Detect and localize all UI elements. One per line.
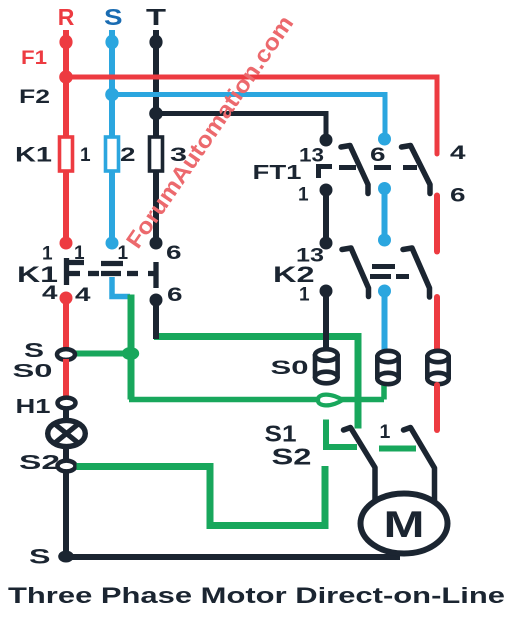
fuse 3 (T phase) <box>150 137 163 171</box>
wire phase R vertical top <box>63 30 69 137</box>
wire bottom return to motor <box>66 554 400 560</box>
wire H1 to lamp <box>63 407 69 421</box>
svg-text:1: 1 <box>299 285 310 306</box>
wire F1 red rail <box>66 77 437 154</box>
node K2 pole2 bottom <box>378 285 391 298</box>
wire black K2 to coil <box>323 291 329 352</box>
FT1 blade pole1 <box>341 146 368 194</box>
svg-text:S2: S2 <box>272 444 312 470</box>
node K2 pole1 bottom <box>320 285 333 298</box>
svg-text:S2: S2 <box>19 452 60 474</box>
svg-text:4: 4 <box>75 285 91 306</box>
wire green vertical from blue corner through S junction <box>128 295 135 400</box>
svg-text:2: 2 <box>120 145 136 166</box>
svg-text:6: 6 <box>450 186 466 207</box>
linkage dash K1 a <box>88 271 99 276</box>
svg-text:H1: H1 <box>16 396 51 418</box>
node R terminal dot <box>59 35 72 49</box>
coil cylinder 3 <box>427 351 448 384</box>
K2 linkage equals <box>370 267 395 277</box>
svg-text:6: 6 <box>166 243 182 264</box>
node FT1 pole2 bottom <box>378 182 391 195</box>
svg-text:M: M <box>384 504 425 545</box>
svg-text:6: 6 <box>167 285 183 306</box>
svg-text:S: S <box>29 546 51 569</box>
fuse 1 (R phase) <box>60 137 73 171</box>
node S above K1 <box>106 237 119 250</box>
svg-text:1: 1 <box>298 185 309 206</box>
wire green S terminal to junction <box>72 351 128 357</box>
wire green S1 top stub <box>326 420 357 448</box>
FT1 blade pole2 <box>402 146 431 194</box>
node junction R-F1 <box>59 70 73 84</box>
svg-text:F1: F1 <box>21 48 47 69</box>
svg-text:1: 1 <box>380 421 391 443</box>
wire green horizontal to S1 column <box>154 333 362 340</box>
linkage dash K1 b <box>127 271 138 276</box>
wire F2 blue rail <box>112 95 385 137</box>
node T above K1 <box>150 237 163 250</box>
K2 blade pole2 <box>403 248 430 297</box>
wire lamp to S2 terminal <box>63 446 69 461</box>
wire S fuse to K1 contact <box>109 171 115 243</box>
wire green vertical to S1 contact <box>355 333 362 429</box>
svg-text:1: 1 <box>80 145 91 166</box>
wire R to S0 terminal <box>63 298 69 348</box>
node FT1 pole2 top <box>378 133 391 146</box>
K2 blade pole1 <box>342 248 369 297</box>
motor M <box>361 494 448 554</box>
contactor K1 pole1 contact <box>64 258 84 285</box>
S1 blade pole2 <box>404 428 435 506</box>
terminal H1 circle <box>58 398 76 409</box>
FT1 trip bracket <box>319 167 333 179</box>
K2 linkage dash <box>396 274 409 279</box>
wire phase T vertical top <box>153 30 159 137</box>
svg-text:S: S <box>104 4 123 30</box>
actuator loop on green wire <box>318 395 343 406</box>
svg-text:K2: K2 <box>273 262 315 287</box>
svg-text:13: 13 <box>299 146 324 167</box>
svg-text:F2: F2 <box>19 87 50 108</box>
terminal S2 circle <box>58 461 76 472</box>
contactor K1 pole3 contact <box>148 262 156 288</box>
svg-text:K1: K1 <box>15 144 52 167</box>
wire green S1 right tick <box>379 446 416 452</box>
coil cylinder 2 <box>377 351 398 384</box>
contactor K1 pole2 contact <box>101 264 123 274</box>
wire S2 down to S node <box>63 471 69 557</box>
node R above K1 <box>60 237 73 250</box>
wire T fuse to K1 contact <box>153 171 159 243</box>
wire R S0 to H1 <box>63 359 69 398</box>
node S bottom <box>58 551 74 563</box>
wire T below K1 <box>153 300 159 339</box>
wire red below coil3 <box>434 385 440 430</box>
wire R fuse to K1 contact <box>63 171 69 243</box>
svg-text:S: S <box>24 340 44 362</box>
svg-text:4: 4 <box>42 283 58 304</box>
terminal S/S0 circle <box>57 349 75 360</box>
svg-text:6: 6 <box>370 145 386 166</box>
wire red K2 to coil <box>434 297 440 353</box>
coil cylinder 1 <box>315 349 338 383</box>
wire red FT1 to K2 <box>434 196 440 252</box>
node green junction <box>122 347 139 360</box>
node K2 pole1 top <box>320 237 333 250</box>
wire blue K2 to coil <box>382 291 388 353</box>
wire green horizontal to coil S0 (with loop) <box>129 384 384 400</box>
FT1 trip dashes <box>339 165 417 170</box>
svg-text:S0: S0 <box>13 360 53 381</box>
lamp H1 <box>48 420 86 446</box>
svg-text:T: T <box>146 4 166 30</box>
wire black FT1 to K2 <box>323 190 329 243</box>
wire blue FT1 to K2 <box>382 189 388 241</box>
node T terminal dot <box>149 35 162 49</box>
node FT1 pole1 bottom <box>320 184 333 197</box>
node FT1 pole1 top <box>320 134 333 147</box>
wire green S2 loop path <box>77 466 326 526</box>
svg-text:R: R <box>58 4 75 30</box>
node junction S-F2 <box>105 88 119 102</box>
svg-text:4: 4 <box>450 143 466 164</box>
node S terminal dot <box>105 35 118 49</box>
node R below K1 <box>60 292 73 305</box>
node junction T-black rail <box>149 107 163 121</box>
node K2 pole2 top <box>378 234 391 247</box>
wire S below K1 (blue corner) <box>112 277 130 297</box>
wire phase S vertical top <box>109 30 115 137</box>
svg-text:FT1: FT1 <box>253 162 302 184</box>
svg-text:Three Phase Motor Direct-on-Li: Three Phase Motor Direct-on-Line <box>8 583 505 608</box>
node T below K1 <box>150 294 163 307</box>
wire black rail <box>156 114 326 138</box>
svg-text:S0: S0 <box>271 358 309 379</box>
S1 blade pole1 <box>344 428 376 504</box>
fuse 2 (S phase) <box>106 137 119 171</box>
